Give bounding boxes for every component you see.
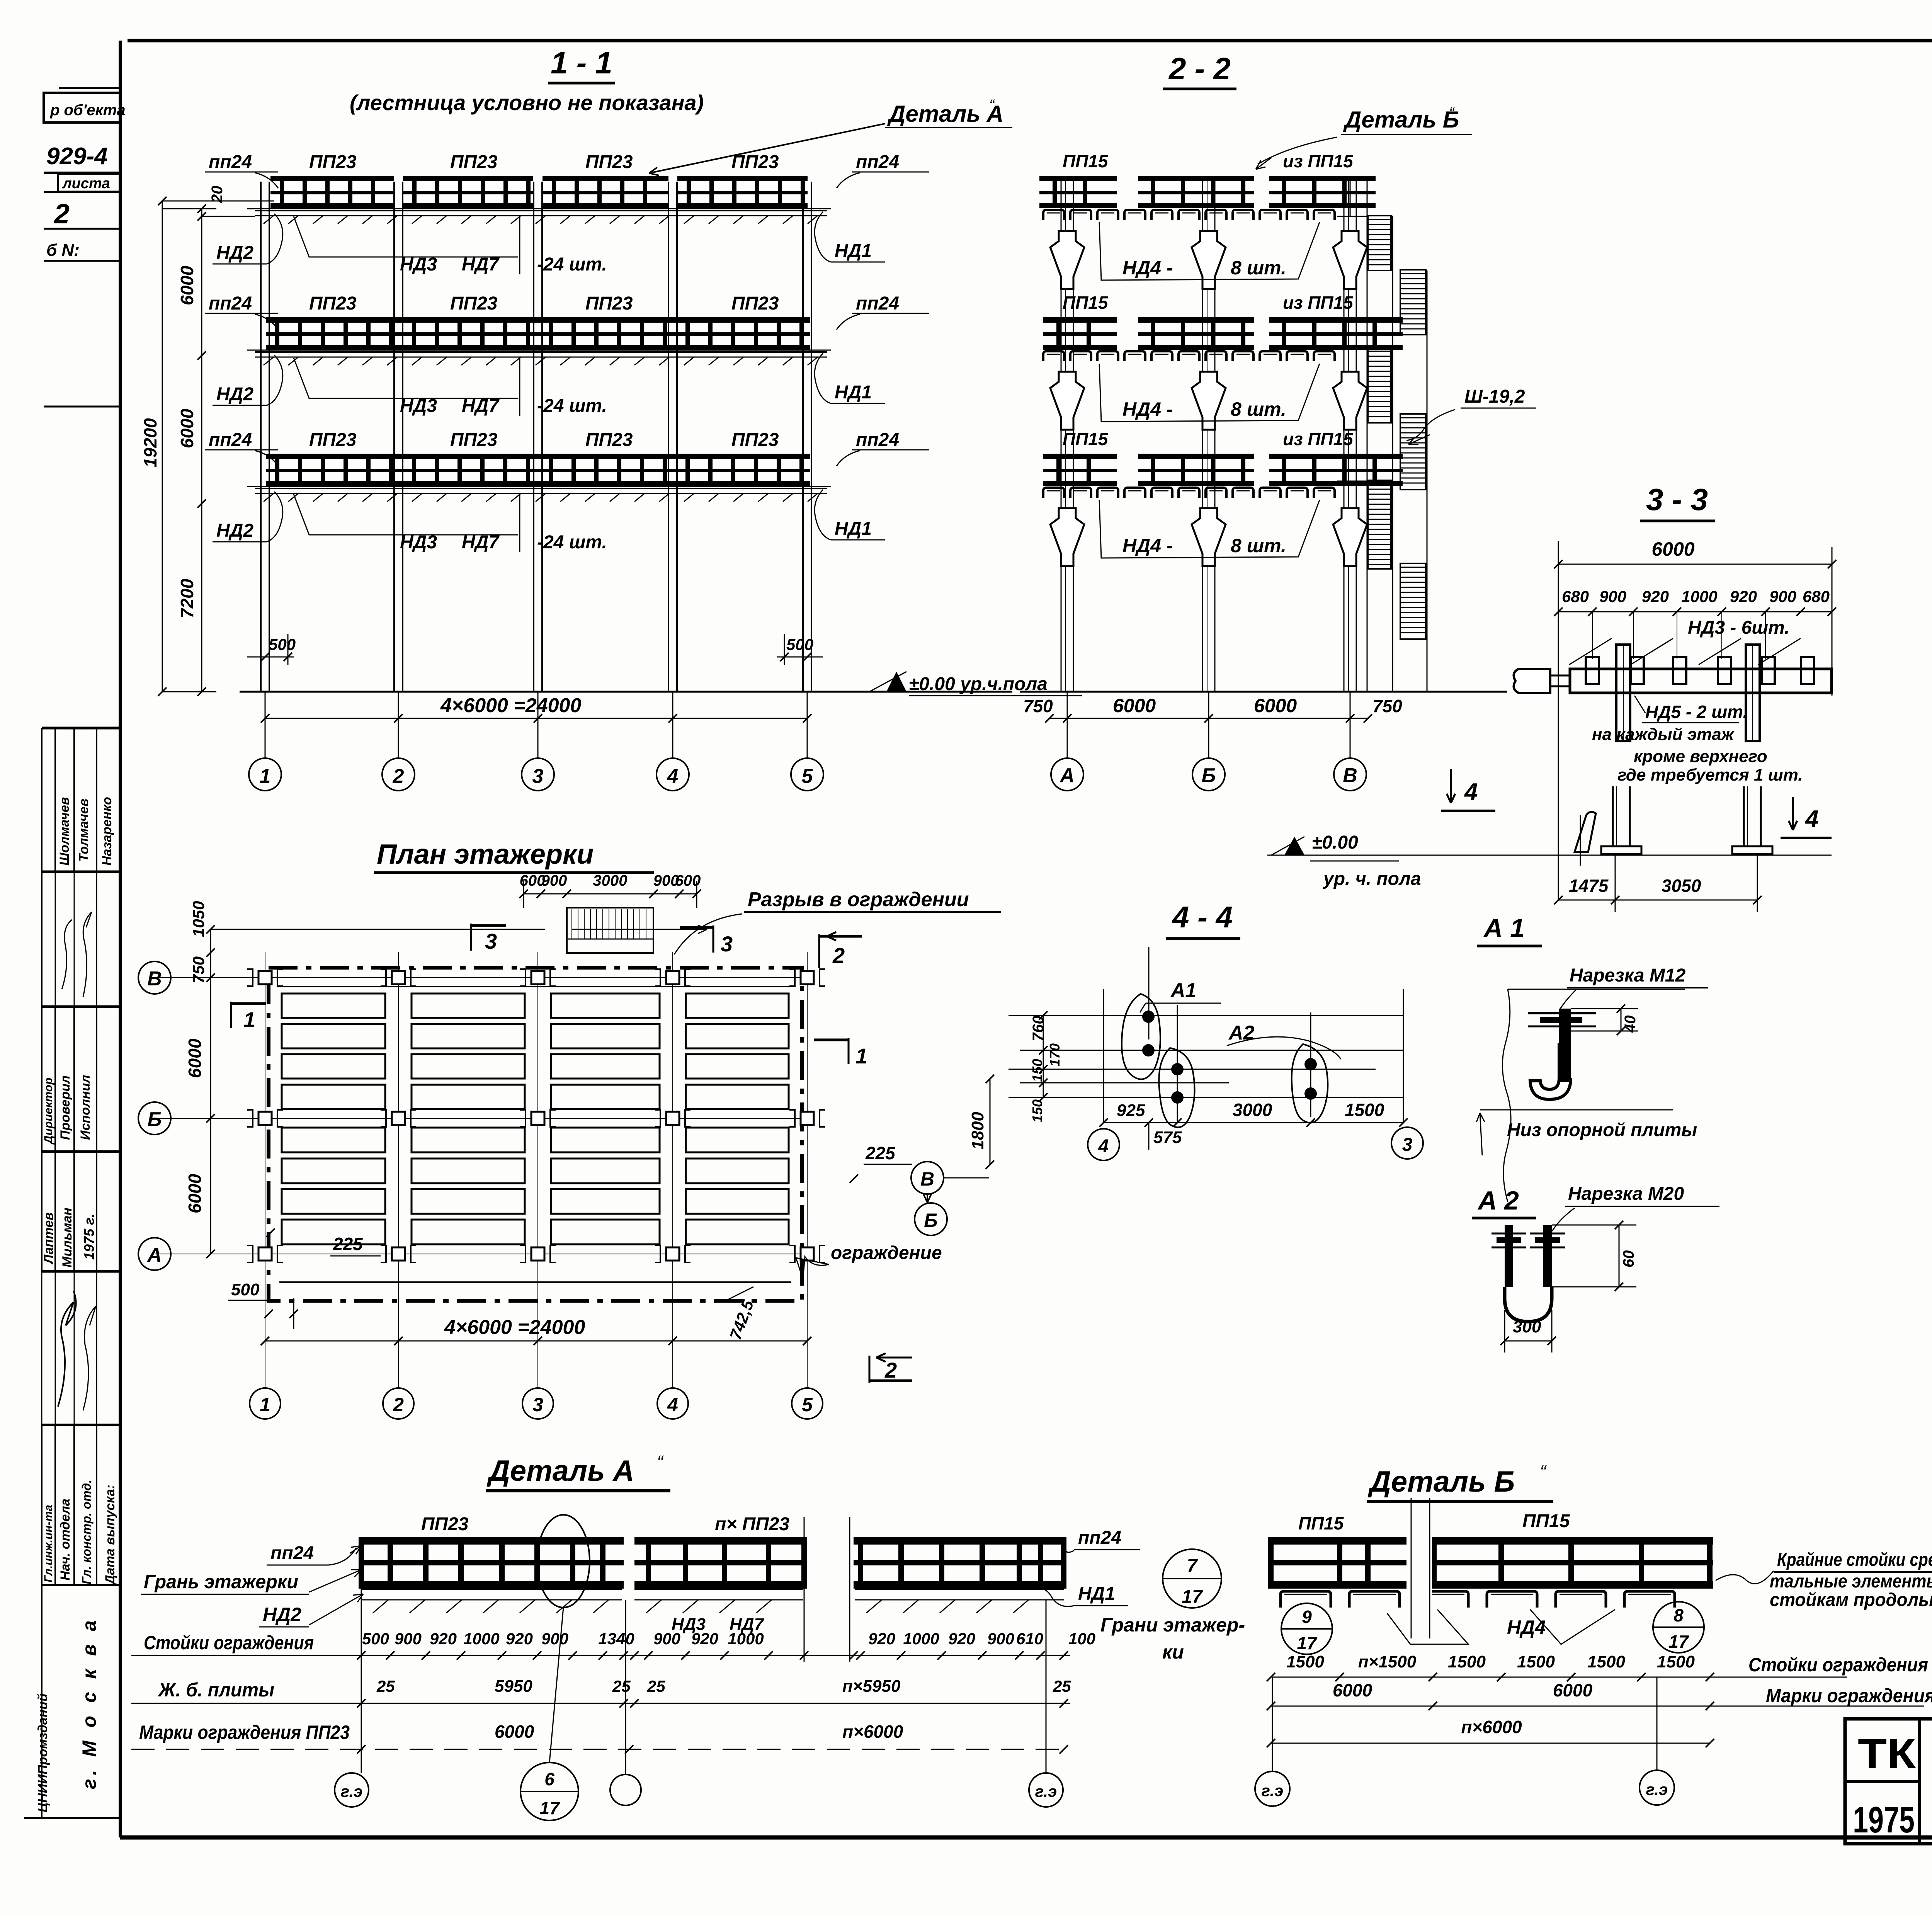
section 3-3 dim 6000 bbox=[1558, 564, 1832, 565]
section 4-4 anchor blob А2 middle bbox=[1159, 1048, 1194, 1127]
svg-text:НД4 -: НД4 - bbox=[1122, 257, 1173, 279]
svg-text:Марки ограждения ПП23: Марки ограждения ПП23 bbox=[139, 1722, 350, 1743]
svg-text:17: 17 bbox=[1668, 1631, 1689, 1652]
svg-text:НД4 -: НД4 - bbox=[1122, 398, 1173, 420]
svg-text:6: 6 bbox=[544, 1769, 554, 1789]
section 4-4 bottom dims bbox=[1104, 1122, 1403, 1123]
section 3-3 anchor sketch bbox=[1575, 812, 1596, 852]
section 3-3 dim 1475/3050 bbox=[1558, 900, 1757, 901]
svg-text:19200: 19200 bbox=[140, 418, 160, 468]
svg-text:4 - 4: 4 - 4 bbox=[1172, 900, 1233, 934]
svg-text:ПП23: ПП23 bbox=[421, 1514, 469, 1535]
svg-text:ПП23: ПП23 bbox=[450, 293, 498, 314]
svg-text:ограждение: ограждение bbox=[831, 1243, 942, 1263]
svg-text:ПП23: ПП23 bbox=[731, 430, 779, 450]
svg-text:60: 60 bbox=[1620, 1250, 1637, 1268]
svg-text:Дириектор: Дириектор bbox=[42, 1078, 55, 1145]
svg-text:НД5 - 2 шт.: НД5 - 2 шт. bbox=[1645, 702, 1748, 722]
svg-text:Деталь А: Деталь А bbox=[887, 101, 1003, 127]
svg-text:150: 150 bbox=[1029, 1059, 1045, 1082]
svg-text:6000: 6000 bbox=[185, 1174, 205, 1213]
svg-text:900: 900 bbox=[987, 1630, 1014, 1648]
svg-text:ТК: ТК bbox=[1858, 1730, 1916, 1777]
section 1-1 columns bbox=[260, 182, 262, 692]
detail А empty circle bbox=[610, 1774, 641, 1805]
svg-text:929-4: 929-4 bbox=[46, 143, 108, 170]
section 4-4 axis circles 4 and 3 bbox=[1088, 1129, 1119, 1160]
svg-text:А 1: А 1 bbox=[1483, 914, 1525, 943]
svg-text:1475: 1475 bbox=[1569, 876, 1609, 896]
section 2-2 columns with capitals bbox=[1061, 176, 1062, 692]
svg-text:-24 шт.: -24 шт. bbox=[537, 532, 607, 553]
svg-text:п×6000: п×6000 bbox=[842, 1722, 903, 1742]
svg-text:ПП23: ПП23 bbox=[309, 293, 357, 314]
svg-text:5: 5 bbox=[802, 765, 813, 788]
svg-text:1000: 1000 bbox=[463, 1630, 499, 1648]
svg-text:1340: 1340 bbox=[598, 1630, 634, 1648]
svg-text:2: 2 bbox=[393, 765, 404, 788]
svg-text:Грань этажерки: Грань этажерки bbox=[144, 1571, 298, 1592]
svg-text:750: 750 bbox=[1023, 696, 1053, 716]
section 1-1 axis drop lines bbox=[265, 692, 266, 758]
svg-text:п×6000: п×6000 bbox=[1461, 1717, 1522, 1737]
svg-text:А: А bbox=[146, 1244, 162, 1266]
svg-text:4×6000 =24000: 4×6000 =24000 bbox=[440, 694, 581, 717]
svg-text:25: 25 bbox=[612, 1677, 631, 1695]
stamp box: листа bbox=[58, 174, 120, 192]
svg-text:920: 920 bbox=[1730, 587, 1757, 606]
section 3-3 dim chain 680/900/920/1000/920/900/680 bbox=[1558, 611, 1832, 612]
svg-text:ПП15: ПП15 bbox=[1298, 1513, 1344, 1533]
section 4-4 vertical lines bbox=[1103, 989, 1104, 1123]
svg-text:3: 3 bbox=[532, 765, 544, 788]
plan stair dim row 600/900/3000/900/600 bbox=[524, 893, 697, 895]
section mark 4 left bbox=[1450, 769, 1452, 803]
svg-text:НД3 - 6шт.: НД3 - 6шт. bbox=[1688, 618, 1789, 638]
svg-text:пп24: пп24 bbox=[856, 293, 899, 314]
svg-text:750: 750 bbox=[189, 956, 207, 983]
svg-text:Гл. констр. отд.: Гл. констр. отд. bbox=[80, 1480, 94, 1584]
svg-text:Разрыв в ограждении: Разрыв в ограждении bbox=[748, 888, 969, 911]
svg-text:Стойки ограждения: Стойки ограждения bbox=[1748, 1654, 1928, 1676]
svg-text:1800: 1800 bbox=[968, 1112, 987, 1150]
svg-text:Крайние стойки срезать гориз: Крайние стойки срезать горизон- bbox=[1777, 1550, 1932, 1570]
svg-text:1000: 1000 bbox=[728, 1630, 764, 1648]
svg-text:ПП23: ПП23 bbox=[309, 152, 357, 172]
svg-text:900: 900 bbox=[541, 872, 567, 889]
svg-text:НД2: НД2 bbox=[263, 1604, 301, 1625]
svg-text:НД2: НД2 bbox=[216, 243, 253, 263]
detail Б dim row 6000s bbox=[1271, 1706, 1924, 1707]
svg-text:НД1: НД1 bbox=[1078, 1584, 1115, 1604]
svg-text:п×5950: п×5950 bbox=[842, 1677, 901, 1696]
svg-text:300: 300 bbox=[1513, 1317, 1541, 1336]
svg-text:6000: 6000 bbox=[495, 1722, 534, 1742]
svg-text:920: 920 bbox=[430, 1630, 457, 1648]
svg-text:План этажерки: План этажерки bbox=[377, 839, 594, 870]
svg-text:3050: 3050 bbox=[1662, 876, 1701, 896]
plan section mark 2 top bbox=[818, 934, 820, 968]
svg-text:г. М о с к в а: г. М о с к в а bbox=[78, 1616, 100, 1789]
section 3-3 lower posts with base plates bbox=[1612, 786, 1614, 846]
section 1-1 ground line bbox=[240, 691, 1012, 693]
svg-text:Низ опорной плиты: Низ опорной плиты bbox=[1507, 1120, 1697, 1140]
svg-text:3: 3 bbox=[1402, 1135, 1413, 1155]
svg-text:ПП15: ПП15 bbox=[1063, 151, 1109, 171]
svg-text:6000: 6000 bbox=[1553, 1680, 1593, 1700]
svg-text:ПП23: ПП23 bbox=[585, 430, 633, 450]
svg-text:610: 610 bbox=[1016, 1630, 1043, 1648]
svg-text:НД4 -: НД4 - bbox=[1122, 535, 1173, 556]
section 3-3 level line ±0.00 bbox=[1267, 855, 1832, 856]
detail Б channel slab row bbox=[1281, 1591, 1331, 1608]
svg-text:пп24: пп24 bbox=[856, 152, 899, 172]
detail А1 dim 40 bbox=[1621, 1009, 1622, 1031]
svg-text:8 шт.: 8 шт. bbox=[1231, 257, 1286, 279]
detail А г.э circle left bbox=[335, 1773, 369, 1807]
svg-text:-24 шт.: -24 шт. bbox=[537, 254, 607, 275]
svg-text:Мильман: Мильман bbox=[60, 1208, 75, 1267]
stamp divider line bbox=[44, 406, 120, 408]
svg-text:500: 500 bbox=[362, 1630, 389, 1648]
plan section mark 3 right bbox=[713, 925, 714, 953]
svg-text:920: 920 bbox=[1642, 587, 1669, 606]
section 1-1 railing bands with slab rows bbox=[270, 176, 394, 181]
svg-text:ЦНИИПромзданий: ЦНИИПромзданий bbox=[36, 1693, 50, 1812]
svg-text:Деталь Б: Деталь Б bbox=[1367, 1465, 1515, 1498]
svg-text:6000: 6000 bbox=[1254, 695, 1297, 716]
svg-text:6000: 6000 bbox=[1333, 1680, 1372, 1700]
svg-text:920: 920 bbox=[691, 1630, 718, 1648]
svg-text:2: 2 bbox=[393, 1394, 404, 1415]
section 2-2 dim 750/6000/6000/750 bbox=[1049, 718, 1368, 719]
svg-text:17: 17 bbox=[1182, 1587, 1203, 1607]
plan section mark 1 left bbox=[230, 1002, 232, 1028]
svg-text:17: 17 bbox=[1297, 1633, 1318, 1653]
detail Б dim row n x 6000 bbox=[1271, 1743, 1710, 1744]
svg-text:ки: ки bbox=[1162, 1641, 1184, 1663]
svg-text:-24 шт.: -24 шт. bbox=[537, 396, 607, 416]
detail А2 U-bolt bbox=[1492, 1233, 1526, 1235]
section 4-4 anchor blob А2 right bbox=[1292, 1044, 1328, 1123]
svg-text:1000: 1000 bbox=[903, 1630, 939, 1648]
detail Б г.э circles bbox=[1272, 1677, 1273, 1771]
svg-text:НД1: НД1 bbox=[835, 382, 872, 403]
svg-text:1500: 1500 bbox=[1286, 1652, 1324, 1671]
section 1-1 dim 500 left bbox=[247, 657, 294, 658]
section 2-2 stair flights bbox=[1368, 216, 1391, 270]
svg-text:4: 4 bbox=[667, 1394, 678, 1415]
svg-text:пп24: пп24 bbox=[209, 152, 252, 172]
svg-text:7200: 7200 bbox=[177, 578, 197, 618]
svg-text:680: 680 bbox=[1803, 587, 1830, 606]
svg-text:150: 150 bbox=[1029, 1099, 1045, 1123]
svg-text:3000: 3000 bbox=[1233, 1100, 1272, 1120]
svg-text:Б: Б bbox=[924, 1210, 937, 1231]
svg-text:В: В bbox=[920, 1168, 934, 1190]
sheet frame bottom border bbox=[120, 1836, 1932, 1840]
svg-text:г.э: г.э bbox=[1262, 1781, 1284, 1800]
plan dim 4x6000=24000 bbox=[265, 1341, 807, 1342]
svg-text:17: 17 bbox=[539, 1798, 560, 1818]
svg-text:из ПП15: из ПП15 bbox=[1283, 151, 1354, 171]
section 3-3 tick drop lines bbox=[1592, 612, 1593, 659]
detail А oval break mark bbox=[537, 1515, 590, 1608]
svg-text:900: 900 bbox=[1599, 587, 1626, 606]
detail А 6/17 circle bbox=[520, 1762, 578, 1820]
plan outer dash-dot boundary bbox=[269, 968, 802, 1301]
detail Б railing band segments bbox=[1269, 1537, 1406, 1545]
svg-text:40: 40 bbox=[1622, 1016, 1639, 1033]
svg-text:Нарезка М20: Нарезка М20 bbox=[1568, 1184, 1684, 1204]
section 2-2 stair stringer lines bbox=[1367, 179, 1368, 692]
section 1-1 dim 4x6000=24000 bbox=[265, 718, 807, 719]
svg-text:В: В bbox=[147, 968, 162, 990]
svg-text:170: 170 bbox=[1047, 1043, 1063, 1067]
svg-text:1975: 1975 bbox=[1853, 1799, 1915, 1841]
label Низ опорной плиты bbox=[1480, 1109, 1673, 1111]
svg-text:900: 900 bbox=[395, 1630, 422, 1648]
stamp block: Проверил / Исполнил bbox=[41, 1007, 43, 1152]
svg-text:4×6000 =24000: 4×6000 =24000 bbox=[444, 1316, 585, 1339]
svg-text:Шолмачев: Шолмачев bbox=[57, 797, 72, 866]
svg-text:3: 3 bbox=[532, 1394, 543, 1415]
svg-text:Марки ограждения ПП15: Марки ограждения ПП15 bbox=[1766, 1685, 1932, 1706]
svg-text:где требуется 1 шт.: где требуется 1 шт. bbox=[1617, 766, 1803, 784]
svg-text:НД1: НД1 bbox=[835, 519, 872, 539]
svg-text:1975 г.: 1975 г. bbox=[81, 1214, 97, 1260]
detail Б 9/17 circle bbox=[1281, 1603, 1332, 1654]
svg-text:пп24: пп24 bbox=[209, 430, 252, 450]
sheet frame left border bbox=[119, 41, 122, 1837]
svg-text:ПП15: ПП15 bbox=[1063, 293, 1109, 313]
svg-text:Нарезка М12: Нарезка М12 bbox=[1570, 965, 1685, 986]
section mark 4 right bbox=[1792, 797, 1794, 830]
svg-text:А1: А1 bbox=[1170, 979, 1196, 1002]
detail А1 break line bbox=[1502, 989, 1511, 1202]
svg-text:7: 7 bbox=[1187, 1556, 1198, 1576]
detail А drop lines and circles bbox=[361, 1589, 362, 1773]
plan axis circles В Б А bbox=[138, 961, 171, 994]
svg-text:1050: 1050 bbox=[189, 901, 207, 937]
svg-text:1: 1 bbox=[855, 1044, 867, 1068]
svg-text:Проверил: Проверил bbox=[58, 1075, 73, 1140]
section 3-3 beam bbox=[1570, 669, 1832, 693]
svg-text:В: В bbox=[1343, 764, 1357, 787]
svg-text:Исполнил: Исполнил bbox=[78, 1075, 93, 1140]
svg-text:Гл.инж.ин-та: Гл.инж.ин-та bbox=[42, 1505, 55, 1582]
svg-text:2 - 2: 2 - 2 bbox=[1168, 51, 1231, 86]
svg-text:Б: Б bbox=[1202, 764, 1216, 787]
svg-text:г.э: г.э bbox=[1646, 1780, 1668, 1798]
stamp block: Гл.инж.ин-та / Нач.отдела / Гл.констр.отд. / Дата выпуска bbox=[41, 1425, 43, 1585]
title block ТК 1975 cell bbox=[1918, 1719, 1921, 1844]
svg-text:2: 2 bbox=[53, 199, 70, 230]
svg-text:3: 3 bbox=[485, 929, 497, 953]
svg-text:500: 500 bbox=[269, 635, 296, 653]
svg-text:ПП23: ПП23 bbox=[585, 152, 633, 172]
svg-text:Дата выпуска:: Дата выпуска: bbox=[103, 1485, 117, 1586]
svg-text:9: 9 bbox=[1302, 1607, 1312, 1627]
svg-text:ПП23: ПП23 bbox=[585, 293, 633, 314]
svg-text:Нач. отдела: Нач. отдела bbox=[58, 1499, 73, 1580]
detail А railing band segments bbox=[361, 1537, 624, 1545]
sheet frame top border bbox=[128, 39, 1932, 43]
svg-text:пп24: пп24 bbox=[209, 293, 252, 314]
svg-text:пп24: пп24 bbox=[856, 430, 899, 450]
svg-text:Ш-19,2: Ш-19,2 bbox=[1464, 386, 1525, 407]
plan axis lines bbox=[265, 952, 265, 1316]
detail А2 dim 300 bbox=[1505, 1341, 1552, 1342]
plan column symbols bbox=[259, 971, 272, 984]
svg-text:Ж. б. плиты: Ж. б. плиты bbox=[157, 1679, 274, 1701]
svg-text:стойкам продольного ряда: стойкам продольного ряда bbox=[1770, 1590, 1932, 1610]
section 4-4 anchor blob А1 bbox=[1122, 994, 1160, 1079]
svg-text:Б: Б bbox=[148, 1108, 162, 1131]
stamp block: names (Толмачев, Толмачев, Назаренко) bbox=[42, 727, 120, 730]
plan slabs bbox=[282, 994, 385, 1018]
section 3-3 НД3 plates on beam bbox=[1586, 657, 1599, 684]
svg-text:Стойки ограждения: Стойки ограждения bbox=[144, 1632, 314, 1654]
stamp block: signatures bbox=[41, 872, 43, 1007]
svg-text:920: 920 bbox=[506, 1630, 533, 1648]
plan В-Б legend bbox=[911, 1162, 944, 1194]
detail Б white break strip bbox=[1406, 1515, 1432, 1635]
svg-text:±0.00: ±0.00 bbox=[1312, 832, 1358, 853]
plan vertical dim 1800 bbox=[990, 1079, 991, 1165]
svg-text:Назаренко: Назаренко bbox=[100, 797, 114, 866]
plan section mark 1 right bbox=[848, 1038, 850, 1064]
svg-text:1000: 1000 bbox=[1681, 587, 1717, 606]
section 2-2 ground line bbox=[1020, 691, 1507, 693]
stamp block: signatures 2 bbox=[41, 1271, 43, 1425]
svg-text:25: 25 bbox=[376, 1677, 395, 1695]
detail Б 8/17 circle bbox=[1653, 1602, 1704, 1653]
svg-text:ПП15: ПП15 bbox=[1063, 429, 1109, 449]
section 2-2 axis circles А Б В bbox=[1051, 758, 1083, 791]
detail Б dim row 1500s bbox=[1271, 1677, 1847, 1678]
svg-text:4: 4 bbox=[667, 765, 679, 788]
svg-text:1 - 1: 1 - 1 bbox=[551, 46, 612, 80]
svg-text:1500: 1500 bbox=[1517, 1652, 1555, 1671]
svg-text:пп24: пп24 bbox=[1078, 1528, 1121, 1548]
svg-text:1500: 1500 bbox=[1587, 1652, 1625, 1671]
section 4-4 left dims bbox=[1043, 1016, 1044, 1097]
svg-text:680: 680 bbox=[1562, 587, 1589, 606]
svg-text:500: 500 bbox=[786, 635, 813, 653]
svg-text:760: 760 bbox=[1030, 1016, 1047, 1041]
svg-text:1500: 1500 bbox=[1448, 1652, 1486, 1671]
svg-text:920: 920 bbox=[868, 1630, 895, 1648]
plan axis circles 1-5 bottom bbox=[250, 1388, 281, 1419]
svg-text:225: 225 bbox=[333, 1234, 363, 1254]
svg-text:б N:: б N: bbox=[46, 241, 80, 260]
svg-text:6000: 6000 bbox=[177, 265, 197, 305]
svg-text:Грани этажер-: Грани этажер- bbox=[1100, 1614, 1245, 1636]
svg-text:4: 4 bbox=[1464, 779, 1478, 805]
svg-text:ПП23: ПП23 bbox=[731, 152, 779, 172]
plan section mark 3 left bbox=[470, 924, 472, 951]
svg-text:ПП23: ПП23 bbox=[450, 430, 498, 450]
detail А dim row 1 (post spacing) bbox=[131, 1655, 1070, 1656]
section 2-2 railing bands bbox=[1039, 176, 1117, 181]
svg-text:ПП23: ПП23 bbox=[309, 430, 357, 450]
svg-text:ПП23: ПП23 bbox=[450, 152, 498, 172]
svg-text:А: А bbox=[1059, 764, 1075, 787]
svg-text:2: 2 bbox=[832, 943, 845, 968]
detail А грани этажерки lines bbox=[804, 1517, 805, 1662]
svg-text:из ПП15: из ПП15 bbox=[1283, 293, 1354, 313]
section 2-2 axis drop lines bbox=[1067, 692, 1068, 758]
svg-text:1: 1 bbox=[243, 1007, 255, 1032]
svg-text:225: 225 bbox=[865, 1143, 896, 1163]
svg-text:6000: 6000 bbox=[177, 408, 197, 448]
svg-text:ПП15: ПП15 bbox=[1522, 1511, 1570, 1531]
svg-text:900: 900 bbox=[1769, 587, 1796, 606]
svg-text:8: 8 bbox=[1673, 1605, 1684, 1625]
svg-text:р об'екта: р об'екта bbox=[50, 102, 126, 119]
section 1-1 dim 500 right bbox=[777, 657, 823, 658]
section 3-3 НД5 posts through beam bbox=[1616, 645, 1630, 741]
plan section mark 2 bottom bbox=[869, 1356, 871, 1383]
svg-text:А2: А2 bbox=[1228, 1022, 1255, 1044]
svg-text:3000: 3000 bbox=[593, 872, 628, 889]
svg-text:2: 2 bbox=[884, 1358, 897, 1382]
svg-text:Лаптев: Лаптев bbox=[41, 1212, 56, 1265]
svg-text:НД1: НД1 bbox=[835, 241, 872, 261]
level mark ±0.00 ур.ч.пола bbox=[886, 672, 906, 692]
svg-text:п× ПП23: п× ПП23 bbox=[715, 1514, 789, 1535]
svg-text:920: 920 bbox=[948, 1630, 975, 1648]
svg-text:1500: 1500 bbox=[1657, 1652, 1695, 1671]
svg-text:925: 925 bbox=[1117, 1101, 1145, 1120]
svg-text:6000: 6000 bbox=[1651, 538, 1694, 560]
svg-text:тальные элементы крепить к: тальные элементы крепить к bbox=[1770, 1571, 1932, 1592]
svg-text:ур. ч. пола: ур. ч. пола bbox=[1323, 869, 1421, 889]
detail А slab rows bbox=[361, 1589, 622, 1590]
svg-text:6000: 6000 bbox=[185, 1038, 205, 1078]
section 4-4 horizontal slab lines bbox=[1009, 1015, 1403, 1016]
svg-text:3: 3 bbox=[721, 932, 733, 956]
svg-text:575: 575 bbox=[1153, 1128, 1182, 1147]
svg-text:25: 25 bbox=[1053, 1677, 1071, 1695]
svg-text:НД2: НД2 bbox=[216, 384, 253, 405]
svg-text:500: 500 bbox=[231, 1280, 260, 1299]
svg-text:кроме верхнего: кроме верхнего bbox=[1634, 747, 1767, 766]
svg-text:ПП23: ПП23 bbox=[731, 293, 779, 314]
svg-text:1500: 1500 bbox=[1345, 1100, 1384, 1120]
section 1-1 axis circles 1-5 bbox=[249, 758, 281, 791]
svg-text:Деталь Б: Деталь Б bbox=[1343, 107, 1459, 133]
svg-text:5: 5 bbox=[802, 1394, 813, 1415]
stamp box: р об'екта bbox=[59, 87, 120, 89]
svg-text:листа: листа bbox=[62, 175, 110, 192]
svg-text:пп24: пп24 bbox=[270, 1543, 314, 1563]
svg-text:8 шт.: 8 шт. bbox=[1231, 398, 1286, 420]
svg-text:из ПП15: из ПП15 bbox=[1283, 429, 1354, 449]
detail А 7/17 circle bbox=[1163, 1549, 1221, 1608]
svg-text:г.э: г.э bbox=[341, 1782, 363, 1800]
plan left dimension chain bbox=[210, 929, 211, 1254]
title block outer box bbox=[1845, 1719, 1932, 1844]
svg-text:Деталь А: Деталь А bbox=[486, 1455, 634, 1487]
svg-text:900: 900 bbox=[653, 1630, 680, 1648]
svg-text:г.э: г.э bbox=[1035, 1782, 1057, 1800]
svg-text:5950: 5950 bbox=[495, 1677, 532, 1696]
svg-text:(лестница условно не показ: (лестница условно не показана) bbox=[350, 90, 704, 115]
svg-text:НД2: НД2 bbox=[216, 521, 253, 541]
svg-text:750: 750 bbox=[1372, 696, 1402, 716]
